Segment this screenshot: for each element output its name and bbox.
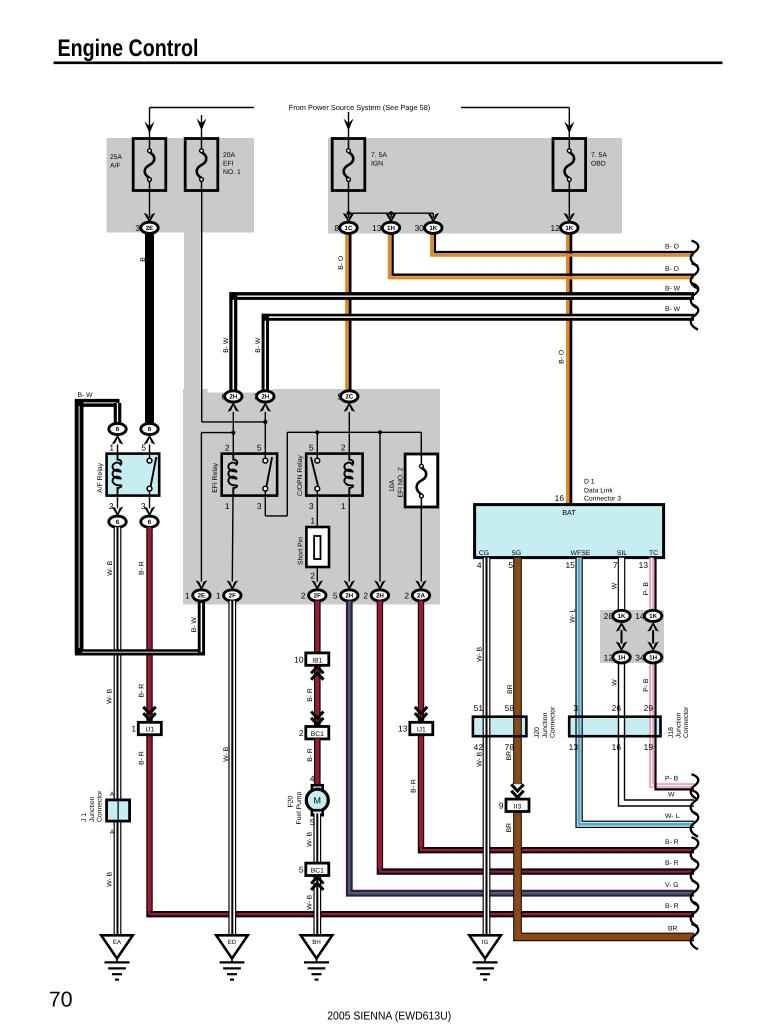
svg-text:6: 6 <box>221 391 226 401</box>
svg-text:28: 28 <box>604 611 614 621</box>
svg-text:6: 6 <box>148 519 152 526</box>
svg-text:1: 1 <box>185 590 190 600</box>
svg-text:1K: 1K <box>565 225 573 232</box>
svg-text:BR: BR <box>506 823 513 833</box>
svg-text:BR: BR <box>507 684 514 694</box>
svg-text:TC: TC <box>649 550 658 557</box>
svg-text:Short Pin: Short Pin <box>297 537 304 565</box>
svg-text:42: 42 <box>474 742 484 752</box>
svg-text:B- O: B- O <box>338 256 345 270</box>
svg-text:B- W: B- W <box>665 306 681 313</box>
svg-text:J 1: J 1 <box>81 813 88 822</box>
svg-text:Connector 3: Connector 3 <box>584 496 621 503</box>
svg-text:Fuel Pump: Fuel Pump <box>296 791 303 824</box>
svg-text:2H: 2H <box>229 394 237 401</box>
svg-text:51: 51 <box>474 703 484 713</box>
svg-text:W- L: W- L <box>665 813 679 820</box>
svg-text:2: 2 <box>225 442 230 452</box>
svg-text:5: 5 <box>299 865 304 875</box>
svg-text:1C: 1C <box>345 225 353 232</box>
svg-text:Connector: Connector <box>96 790 103 822</box>
svg-text:CG: CG <box>479 550 489 557</box>
svg-text:ED: ED <box>228 939 237 946</box>
svg-text:B- O: B- O <box>558 350 565 364</box>
svg-text:A/F: A/F <box>110 163 121 170</box>
svg-text:7: 7 <box>613 560 618 570</box>
svg-text:1: 1 <box>341 501 346 511</box>
svg-text:20A: 20A <box>223 152 236 159</box>
svg-text:12: 12 <box>550 223 560 233</box>
svg-text:J20: J20 <box>534 727 541 738</box>
svg-text:W- B: W- B <box>106 871 113 886</box>
svg-text:2: 2 <box>310 571 315 581</box>
svg-text:1H: 1H <box>618 654 626 661</box>
svg-text:Engine Control: Engine Control <box>58 35 199 62</box>
svg-text:12: 12 <box>604 652 614 662</box>
svg-text:2H: 2H <box>376 593 384 600</box>
svg-text:1: 1 <box>310 516 315 526</box>
svg-text:14: 14 <box>635 611 645 621</box>
svg-text:BR: BR <box>506 751 513 761</box>
svg-text:3: 3 <box>573 703 578 713</box>
svg-text:W- B: W- B <box>476 646 483 661</box>
svg-text:6: 6 <box>148 426 152 433</box>
svg-text:2: 2 <box>341 442 346 452</box>
svg-text:2H: 2H <box>261 394 269 401</box>
svg-text:From Power Source System (See: From Power Source System (See Page 58) <box>289 103 431 112</box>
svg-text:W: W <box>611 679 618 686</box>
svg-text:10A: 10A <box>389 479 396 492</box>
svg-text:WFSE: WFSE <box>571 550 591 557</box>
svg-text:D 1: D 1 <box>584 479 595 486</box>
svg-text:Junction: Junction <box>89 796 96 822</box>
svg-text:IGN: IGN <box>371 161 383 168</box>
svg-text:1: 1 <box>131 724 136 734</box>
svg-text:13: 13 <box>372 223 382 233</box>
svg-text:P- B: P- B <box>643 678 650 692</box>
svg-text:7: 7 <box>253 391 258 401</box>
svg-text:2C: 2C <box>345 394 353 401</box>
svg-text:EFI: EFI <box>223 161 234 168</box>
svg-text:B- W: B- W <box>255 337 262 353</box>
svg-text:BC1: BC1 <box>311 731 324 738</box>
svg-text:II3: II3 <box>514 804 522 811</box>
svg-text:B- W: B- W <box>191 617 198 633</box>
svg-text:W- B: W- B <box>306 894 313 909</box>
svg-text:OBD: OBD <box>591 161 606 168</box>
svg-text:2E: 2E <box>198 593 206 600</box>
svg-text:2: 2 <box>301 590 306 600</box>
svg-text:B- O: B- O <box>665 243 679 250</box>
svg-text:SIL: SIL <box>617 550 627 557</box>
svg-text:P- B: P- B <box>665 775 679 782</box>
svg-text:3: 3 <box>141 501 146 511</box>
svg-text:13: 13 <box>639 560 649 570</box>
svg-text:B- R: B- R <box>665 903 679 910</box>
svg-text:B- R: B- R <box>665 839 679 846</box>
svg-text:W- B: W- B <box>223 746 230 761</box>
svg-text:1H: 1H <box>387 225 395 232</box>
svg-text:4: 4 <box>310 774 315 784</box>
svg-text:EFI NO. 2: EFI NO. 2 <box>397 467 404 497</box>
svg-text:19: 19 <box>644 742 654 752</box>
svg-text:B- W: B- W <box>78 392 94 399</box>
svg-text:B: B <box>140 257 147 262</box>
svg-text:W: W <box>668 792 675 799</box>
svg-text:1K: 1K <box>618 613 626 620</box>
svg-text:A: A <box>110 829 115 836</box>
svg-text:2H: 2H <box>345 593 353 600</box>
svg-text:26: 26 <box>612 703 622 713</box>
svg-text:W- B: W- B <box>306 831 313 846</box>
svg-text:1H: 1H <box>649 654 657 661</box>
svg-text:30: 30 <box>414 223 424 233</box>
svg-text:B- R: B- R <box>139 751 146 765</box>
svg-text:3: 3 <box>135 223 140 233</box>
svg-text:16: 16 <box>555 493 565 503</box>
svg-text:2E: 2E <box>146 225 154 232</box>
svg-text:2F: 2F <box>229 593 236 600</box>
svg-text:70: 70 <box>49 988 73 1012</box>
svg-text:W- B: W- B <box>106 688 113 703</box>
svg-text:2005 SIENNA (EWD613U): 2005 SIENNA (EWD613U) <box>327 1011 451 1023</box>
svg-text:5: 5 <box>333 590 338 600</box>
svg-text:Junction: Junction <box>542 712 549 738</box>
svg-text:7. 5A: 7. 5A <box>371 152 387 159</box>
svg-text:W- B: W- B <box>107 560 114 575</box>
svg-text:2: 2 <box>363 590 368 600</box>
svg-text:2: 2 <box>299 728 304 738</box>
svg-text:3: 3 <box>309 501 314 511</box>
svg-text:IJ1: IJ1 <box>417 727 426 734</box>
svg-text:B- R: B- R <box>139 684 146 698</box>
svg-text:Connector: Connector <box>683 706 690 738</box>
svg-text:2F: 2F <box>314 593 321 600</box>
svg-text:W: W <box>611 582 618 589</box>
svg-text:F20: F20 <box>288 796 295 808</box>
svg-text:2: 2 <box>404 590 409 600</box>
svg-text:58: 58 <box>505 703 515 713</box>
svg-text:9: 9 <box>499 801 504 811</box>
svg-text:1: 1 <box>225 501 230 511</box>
svg-text:IG: IG <box>482 939 489 946</box>
svg-text:1K: 1K <box>429 225 437 232</box>
svg-text:V- G: V- G <box>665 882 679 889</box>
svg-text:A/F Relay: A/F Relay <box>97 462 104 492</box>
svg-text:29: 29 <box>644 703 654 713</box>
svg-text:10: 10 <box>294 654 304 664</box>
svg-text:B- W: B- W <box>665 285 681 292</box>
svg-text:SG: SG <box>511 550 521 557</box>
svg-text:Connector: Connector <box>549 706 556 738</box>
svg-text:EFI Relay: EFI Relay <box>212 462 219 492</box>
svg-text:1K: 1K <box>649 613 657 620</box>
svg-text:BC1: BC1 <box>311 868 324 875</box>
svg-text:B- W: B- W <box>223 337 230 353</box>
svg-text:4: 4 <box>477 560 482 570</box>
svg-text:Junction: Junction <box>675 712 682 738</box>
svg-text:16: 16 <box>612 742 622 752</box>
svg-text:P- B: P- B <box>643 582 650 596</box>
svg-text:EA: EA <box>113 939 122 946</box>
svg-text:BR: BR <box>668 926 678 933</box>
svg-text:M: M <box>314 795 322 805</box>
svg-text:W- B: W- B <box>476 751 483 766</box>
svg-text:6: 6 <box>116 519 120 526</box>
svg-text:7. 5A: 7. 5A <box>591 152 607 159</box>
svg-text:2: 2 <box>109 501 114 511</box>
svg-text:W- L: W- L <box>569 608 576 622</box>
svg-text:1: 1 <box>109 442 114 452</box>
svg-text:5: 5 <box>508 560 513 570</box>
svg-text:5: 5 <box>309 442 314 452</box>
svg-text:NO. 1: NO. 1 <box>223 169 241 176</box>
svg-text:B- R: B- R <box>307 748 314 762</box>
svg-text:BH: BH <box>312 939 320 946</box>
svg-text:3: 3 <box>257 501 262 511</box>
svg-text:B- R: B- R <box>411 779 418 793</box>
svg-text:6: 6 <box>116 426 120 433</box>
svg-text:IJ1: IJ1 <box>145 727 154 734</box>
svg-text:5: 5 <box>141 442 146 452</box>
svg-text:BAT: BAT <box>562 508 576 517</box>
svg-text:13: 13 <box>398 724 408 734</box>
svg-text:15: 15 <box>565 560 575 570</box>
svg-text:Data Link: Data Link <box>584 487 613 494</box>
svg-text:2A: 2A <box>417 593 425 600</box>
svg-text:IB1: IB1 <box>312 657 322 664</box>
svg-text:B- R: B- R <box>139 561 146 575</box>
svg-text:1: 1 <box>216 590 221 600</box>
svg-text:B- O: B- O <box>665 266 679 273</box>
svg-text:25A: 25A <box>110 154 123 161</box>
svg-text:78: 78 <box>505 742 515 752</box>
svg-text:B- R: B- R <box>665 860 679 867</box>
svg-text:A: A <box>110 791 115 798</box>
svg-text:B- R: B- R <box>307 688 314 702</box>
svg-text:5: 5 <box>257 442 262 452</box>
svg-text:8: 8 <box>334 223 339 233</box>
svg-text:C/OPN Relay: C/OPN Relay <box>297 455 304 496</box>
svg-text:5: 5 <box>337 391 342 401</box>
svg-text:13: 13 <box>569 742 579 752</box>
svg-text:J18: J18 <box>668 727 675 738</box>
svg-text:34: 34 <box>635 652 645 662</box>
